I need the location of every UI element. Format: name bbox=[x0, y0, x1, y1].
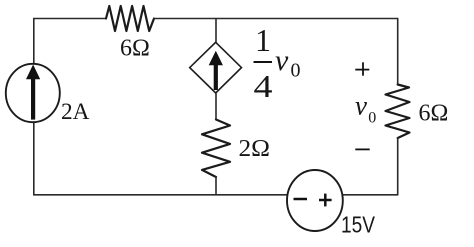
current source I1 2A circle bbox=[6, 64, 60, 122]
svg-text:2A: 2A bbox=[61, 99, 90, 124]
label 6ohm top bbox=[120, 35, 150, 61]
svg-text:v: v bbox=[355, 90, 367, 120]
wire top-right segment bbox=[154, 18, 398, 20]
resistor R2 2ohm zigzag bbox=[202, 120, 230, 178]
wire resistor 2ohm to bottom bbox=[215, 177, 217, 195]
svg-text:v: v bbox=[275, 44, 289, 77]
label fraction denominator 4 bbox=[254, 68, 273, 104]
dependent source arrow bbox=[209, 51, 223, 90]
dependent current source diamond bbox=[190, 42, 242, 93]
voltage source V1 15V circle bbox=[287, 170, 343, 231]
label plus polarity right bbox=[355, 62, 369, 75]
svg-text:1: 1 bbox=[255, 22, 271, 58]
label 6ohm right bbox=[419, 100, 449, 126]
wire right rail top lead bbox=[397, 19, 399, 85]
label 2ohm bbox=[239, 136, 271, 162]
svg-text:6Ω: 6Ω bbox=[120, 35, 150, 61]
fraction bar bbox=[254, 61, 273, 63]
svg-text:0: 0 bbox=[291, 60, 301, 82]
wire bottom bbox=[34, 194, 398, 196]
label v0 right bbox=[355, 90, 376, 126]
voltage source plus sign bbox=[319, 194, 332, 207]
voltage source minus sign bbox=[294, 198, 308, 201]
wire dependent source to resistor 2ohm bbox=[215, 93, 217, 120]
resistor R3 6ohm right zigzag bbox=[386, 85, 410, 139]
svg-text:2Ω: 2Ω bbox=[239, 136, 271, 162]
wire right rail bottom lead bbox=[397, 138, 399, 195]
label 15V bbox=[341, 212, 376, 238]
label 2A bbox=[61, 99, 90, 124]
label v0 controlling variable bbox=[275, 44, 301, 82]
resistor R1 6ohm top zigzag bbox=[106, 6, 154, 31]
current source I1 arrow bbox=[26, 65, 40, 120]
wire junction node to dependent source bbox=[215, 19, 217, 43]
svg-text:15V: 15V bbox=[341, 212, 376, 238]
svg-text:6Ω: 6Ω bbox=[419, 100, 449, 126]
svg-text:0: 0 bbox=[368, 109, 376, 126]
wire top-left segment bbox=[34, 18, 106, 20]
label fraction numerator 1 bbox=[255, 22, 271, 58]
wire left rail bbox=[33, 19, 35, 195]
svg-text:4: 4 bbox=[254, 68, 273, 104]
label minus polarity right bbox=[355, 148, 369, 150]
